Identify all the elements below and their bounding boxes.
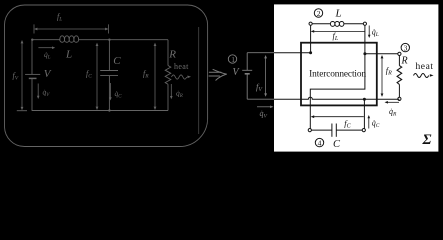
svg-text:heat: heat [174, 62, 189, 71]
svg-text:heat: heat [416, 62, 434, 72]
svg-text:1: 1 [231, 55, 235, 64]
svg-text:R: R [168, 49, 176, 61]
svg-text:2: 2 [317, 9, 321, 18]
svg-text:L: L [335, 7, 342, 19]
svg-text:4: 4 [318, 139, 322, 148]
svg-text:C: C [333, 139, 341, 150]
svg-text:L: L [65, 48, 72, 60]
svg-text:C: C [113, 55, 121, 67]
svg-text:Interconnection: Interconnection [309, 70, 366, 80]
svg-text:Σ: Σ [422, 132, 432, 148]
svg-text:3: 3 [404, 44, 408, 53]
svg-text:R: R [401, 55, 408, 66]
